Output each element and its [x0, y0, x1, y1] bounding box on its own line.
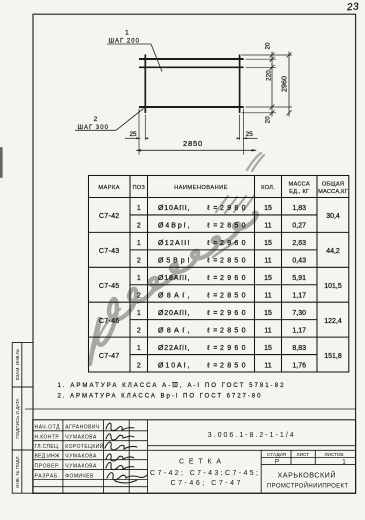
- svg-text:122,4: 122,4: [324, 318, 342, 325]
- svg-text:2: 2: [137, 327, 141, 334]
- scanner edge smudge: [0, 147, 3, 178]
- signature row 2: [106, 434, 134, 440]
- svg-text:ЧУМАКОВА: ЧУМАКОВА: [65, 464, 97, 470]
- svg-text:=: =: [213, 275, 217, 282]
- svg-text:=: =: [213, 362, 217, 369]
- svg-text:С7-43: С7-43: [99, 248, 120, 255]
- svg-text:ЕД., КГ: ЕД., КГ: [289, 189, 309, 195]
- svg-text:Н.КОНТР.: Н.КОНТР.: [35, 434, 60, 440]
- left strip: ПОДПИСЬ И ДАТА box: [12, 387, 33, 450]
- svg-text:МАССА,КГ: МАССА,КГ: [318, 189, 348, 195]
- svg-text:2960: 2960: [279, 76, 288, 92]
- leader 2 шаг 300: [75, 109, 144, 131]
- leader 1 шаг 200: [107, 44, 162, 72]
- svg-text:1: 1: [137, 240, 141, 247]
- svg-text:7,30: 7,30: [292, 310, 306, 317]
- svg-text:Ø18АIII,: Ø18АIII,: [158, 275, 190, 282]
- svg-text:11: 11: [264, 258, 271, 265]
- spec table mark/total merged cells: [99, 213, 342, 360]
- spec table grid: [89, 176, 349, 373]
- mesh horizontal bar bottom: [139, 106, 244, 108]
- watermark flick above table: [247, 153, 264, 171]
- svg-text:МАССА: МАССА: [289, 181, 310, 187]
- mesh vertical bar right: [239, 55, 241, 114]
- svg-text:1: 1: [125, 30, 129, 37]
- svg-text:2: 2: [137, 223, 141, 230]
- title block staff names: [65, 425, 103, 480]
- svg-text:ВЕД.ИНЖ: ВЕД.ИНЖ: [35, 454, 60, 460]
- svg-text:1,76: 1,76: [292, 362, 306, 369]
- title block grid: [33, 420, 356, 494]
- svg-text:1: 1: [137, 275, 141, 282]
- svg-text:151,8: 151,8: [324, 353, 342, 360]
- svg-text:РАЗРАБ.: РАЗРАБ.: [35, 473, 60, 479]
- svg-text:2850: 2850: [183, 139, 203, 148]
- spec table header: [98, 181, 348, 195]
- separator line above title block: [25, 408, 356, 410]
- svg-text:2,63: 2,63: [292, 240, 306, 247]
- signature row 5: [106, 462, 134, 469]
- svg-text:СТАДИЯ: СТАДИЯ: [267, 452, 286, 457]
- svg-text:ПРОМСТРОЙНИИПРОЕКТ: ПРОМСТРОЙНИИПРОЕКТ: [267, 481, 348, 489]
- dim 2850: [136, 149, 256, 151]
- svg-text:101,5: 101,5: [324, 283, 342, 290]
- svg-text:Ø10АIII,: Ø10АIII,: [158, 205, 190, 212]
- svg-text:11: 11: [264, 223, 271, 230]
- mesh horizontal bar top: [139, 58, 244, 60]
- стадия лист листов header: [267, 452, 344, 457]
- svg-text:15: 15: [264, 205, 272, 212]
- svg-text:ГЛ.СПЕЦ.: ГЛ.СПЕЦ.: [35, 444, 60, 450]
- svg-text:ЛИСТ: ЛИСТ: [297, 452, 310, 457]
- svg-text:11: 11: [264, 293, 271, 300]
- dimension line chain 20/220/20: [270, 52, 275, 117]
- svg-text:20: 20: [264, 116, 271, 124]
- svg-text:11: 11: [264, 327, 271, 334]
- svg-text:=: =: [213, 345, 217, 352]
- svg-text:1: 1: [137, 205, 141, 212]
- svg-text:Ø20АIII,: Ø20АIII,: [158, 310, 190, 317]
- svg-text:44,2: 44,2: [326, 248, 340, 255]
- svg-text:=: =: [213, 310, 217, 317]
- dimension line 2960: [287, 52, 292, 117]
- svg-text:Ø10АI,: Ø10АI,: [158, 362, 190, 369]
- svg-text:ПРОВЕР.: ПРОВЕР.: [35, 464, 60, 470]
- signature row 3: [105, 442, 137, 450]
- svg-text:С7-47: С7-47: [99, 353, 120, 360]
- svg-text:2: 2: [94, 116, 98, 123]
- svg-text:ЧУМАКОВА: ЧУМАКОВА: [65, 434, 97, 440]
- svg-text:КОЛ.: КОЛ.: [261, 185, 275, 191]
- svg-text:ШАГ 200: ШАГ 200: [109, 39, 140, 45]
- svg-text:С7-46: С7-46: [99, 318, 120, 325]
- svg-text:=: =: [213, 205, 217, 212]
- svg-text:5,91: 5,91: [292, 275, 306, 282]
- right dimension extension lines: [242, 55, 293, 113]
- left strip: ИНВ. № ПОДЛ. box: [12, 450, 33, 493]
- svg-text:20: 20: [264, 42, 271, 50]
- title block staff labels: [35, 425, 61, 480]
- signature row 4: [106, 454, 134, 461]
- spec table body: [137, 205, 306, 369]
- svg-text:МАРКА: МАРКА: [98, 185, 120, 191]
- signature row 1: [106, 423, 134, 430]
- svg-text:АГРАНОВИЧ: АГРАНОВИЧ: [65, 425, 99, 431]
- svg-text:=: =: [213, 223, 217, 230]
- svg-text:С7-45: С7-45: [99, 283, 120, 290]
- svg-text:ШАГ 300: ШАГ 300: [78, 125, 109, 131]
- signature row 6: [107, 473, 147, 483]
- left strip: ВЗАМ. ИНВ.№ box: [12, 343, 33, 388]
- svg-text:15: 15: [264, 310, 272, 317]
- svg-text:15: 15: [264, 345, 272, 352]
- svg-text:ЛИСТОВ: ЛИСТОВ: [324, 452, 343, 457]
- dim 25 left: [125, 137, 141, 139]
- watermark scrawl: [90, 153, 264, 364]
- svg-text:1,83: 1,83: [292, 205, 306, 212]
- svg-text:Ø12АIII: Ø12АIII: [158, 240, 190, 247]
- svg-text:23: 23: [346, 2, 360, 14]
- svg-text:1: 1: [342, 459, 346, 466]
- svg-text:С7-42: С7-42: [99, 213, 120, 220]
- svg-text:0,27: 0,27: [292, 223, 306, 230]
- svg-text:ПОДПИСЬ И ДАТА: ПОДПИСЬ И ДАТА: [15, 397, 20, 438]
- svg-text:ФОМИЧЕВ: ФОМИЧЕВ: [65, 473, 94, 479]
- svg-text:15: 15: [264, 275, 272, 282]
- svg-text:30,4: 30,4: [326, 213, 340, 220]
- svg-text:3.006.1-8.2-1-1/4: 3.006.1-8.2-1-1/4: [208, 432, 294, 439]
- svg-text:Ø22АIII,: Ø22АIII,: [158, 345, 190, 352]
- svg-text:11: 11: [264, 362, 271, 369]
- svg-text:НАИМЕНОВАНИЕ: НАИМЕНОВАНИЕ: [174, 185, 228, 191]
- svg-text:=: =: [213, 293, 217, 300]
- svg-text:КОРОТЕЦКИЙ: КОРОТЕЦКИЙ: [65, 442, 103, 450]
- svg-text:25: 25: [129, 131, 137, 138]
- svg-text:Р: Р: [275, 459, 279, 466]
- svg-text:0,43: 0,43: [292, 258, 306, 265]
- svg-text:ВЗАМ. ИНВ.№: ВЗАМ. ИНВ.№: [15, 349, 20, 380]
- svg-text:1: 1: [137, 310, 141, 317]
- svg-text:25: 25: [246, 131, 254, 138]
- mesh horizontal bar second: [139, 66, 244, 68]
- dim 25 right: [243, 137, 258, 139]
- svg-text:ИНВ. № ПОДЛ.: ИНВ. № ПОДЛ.: [15, 455, 20, 488]
- svg-text:=: =: [213, 258, 217, 265]
- svg-text:ПОЗ: ПОЗ: [133, 185, 146, 191]
- signatures: [105, 423, 147, 483]
- svg-text:220: 220: [265, 70, 272, 81]
- svg-text:=: =: [213, 327, 217, 334]
- svg-text:ХАРЬКОВСКИЙ: ХАРЬКОВСКИЙ: [278, 470, 336, 479]
- svg-text:2: 2: [137, 258, 141, 265]
- svg-text:2: 2: [137, 293, 141, 300]
- svg-text:1,17: 1,17: [292, 293, 306, 300]
- svg-text:2: 2: [137, 362, 141, 369]
- svg-text:ОБЩАЯ: ОБЩАЯ: [322, 181, 344, 187]
- svg-text:1,17: 1,17: [292, 327, 306, 334]
- mesh vertical bar left: [144, 55, 146, 114]
- watermark hatch over 2960 cell: [216, 196, 254, 213]
- svg-text:15: 15: [264, 240, 272, 247]
- svg-text:НАЧ.ОТД: НАЧ.ОТД: [35, 425, 61, 431]
- svg-text:ЧУМАКОВА: ЧУМАКОВА: [65, 454, 97, 460]
- svg-text:Ø4ВрI,: Ø4ВрI,: [158, 223, 190, 230]
- svg-text:=: =: [213, 240, 217, 247]
- svg-text:1: 1: [137, 345, 141, 352]
- bottom dimension extension lines: [139, 109, 244, 155]
- svg-text:8,83: 8,83: [292, 345, 306, 352]
- title block outer: [33, 420, 356, 494]
